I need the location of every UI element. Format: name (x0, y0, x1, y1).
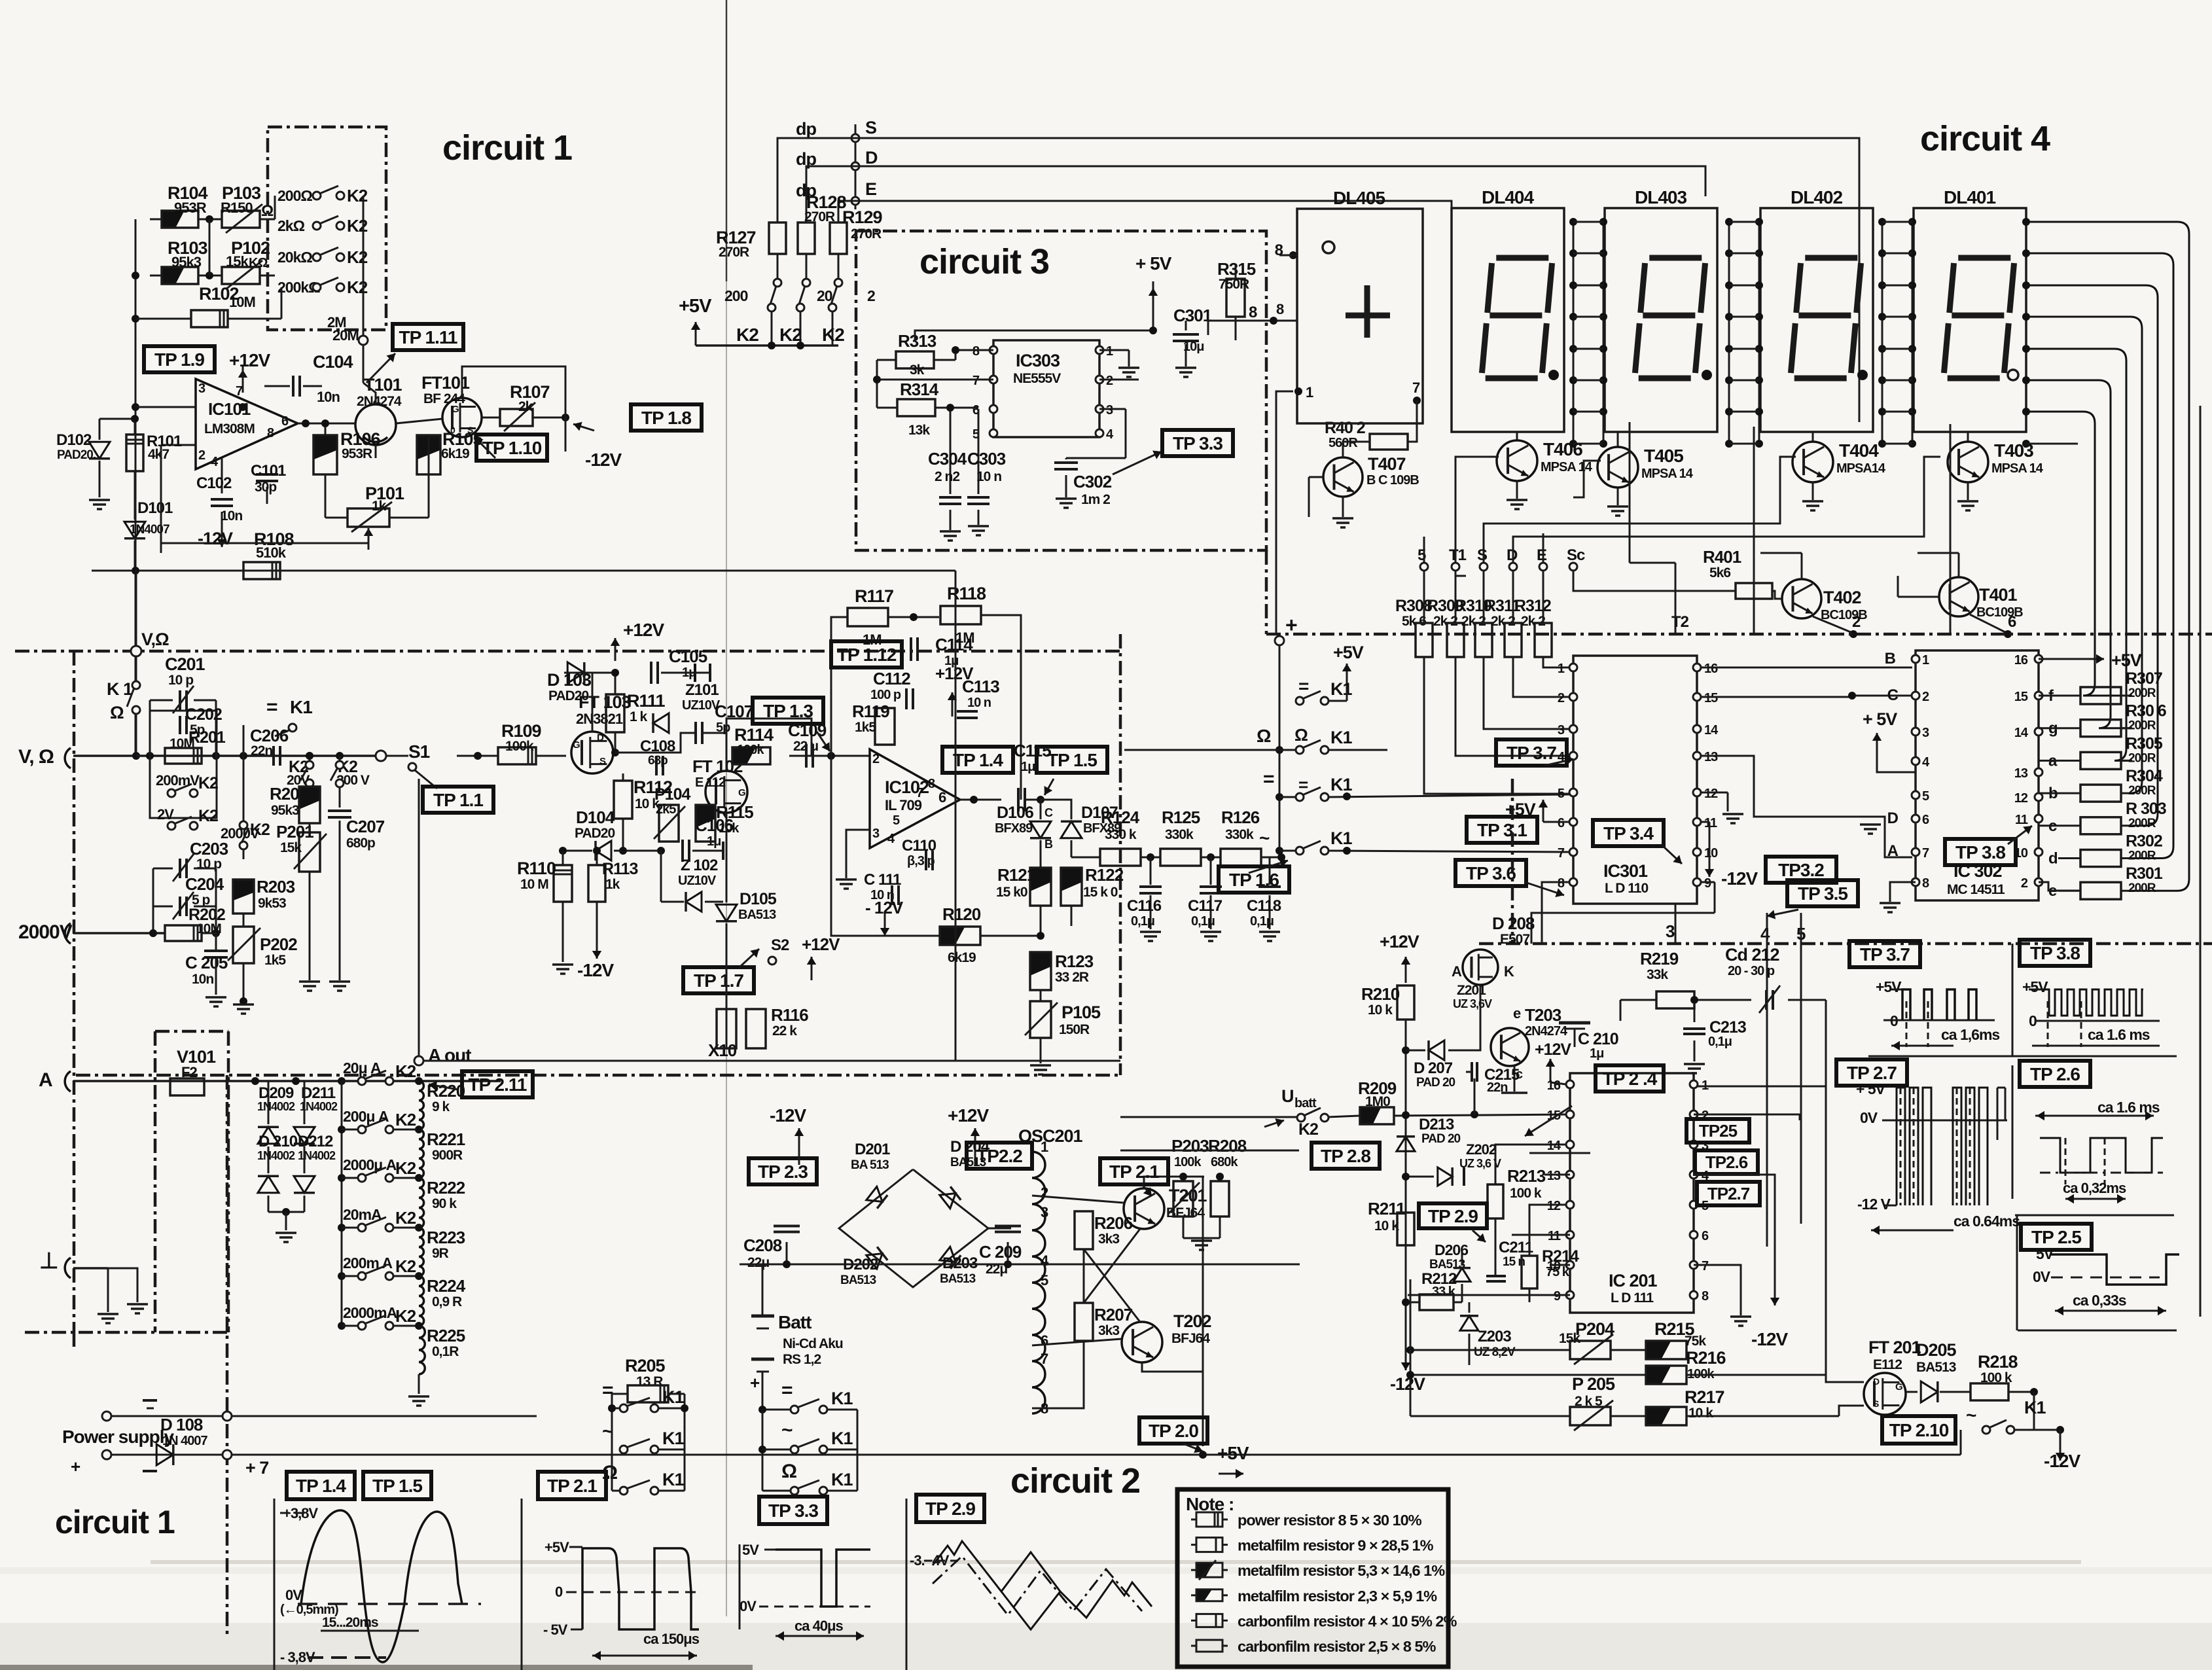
svg-text:7: 7 (916, 786, 923, 800)
svg-text:3k3: 3k3 (1098, 1232, 1119, 1247)
svg-text:TP 2.9: TP 2.9 (1428, 1206, 1478, 1226)
svg-text:1N4002: 1N4002 (257, 1100, 295, 1113)
svg-text:- 5V: - 5V (543, 1622, 568, 1638)
svg-text:D213: D213 (1419, 1116, 1454, 1133)
svg-text:FT 201: FT 201 (1868, 1338, 1921, 1357)
svg-text:circuit 3: circuit 3 (919, 242, 1049, 281)
svg-text:S: S (865, 118, 876, 137)
svg-text:c: c (1516, 1067, 1523, 1082)
svg-text:K: K (1504, 963, 1514, 980)
svg-text:K2: K2 (395, 1061, 416, 1081)
svg-text:R208: R208 (1208, 1136, 1247, 1156)
svg-text:13: 13 (1704, 750, 1718, 764)
svg-text:T403: T403 (1994, 440, 2033, 461)
svg-text:1k: 1k (372, 499, 387, 514)
svg-text:+5V: +5V (1876, 978, 1902, 995)
svg-text:14: 14 (2014, 726, 2029, 740)
svg-text:C: C (1887, 686, 1899, 704)
svg-text:8: 8 (928, 777, 935, 791)
svg-text:+ 7: + 7 (245, 1458, 268, 1478)
svg-text:D: D (1887, 809, 1899, 827)
svg-text:IC 201: IC 201 (1609, 1271, 1658, 1290)
svg-text:200m A: 200m A (343, 1254, 392, 1271)
svg-text:C112: C112 (873, 669, 910, 688)
svg-text:3k3: 3k3 (1098, 1323, 1119, 1338)
svg-text:1N4002: 1N4002 (300, 1100, 338, 1113)
svg-text:9: 9 (1704, 876, 1711, 891)
svg-text:~: ~ (781, 1419, 793, 1441)
svg-text:0: 0 (555, 1584, 563, 1600)
svg-text:metalfilm resistor 2,3 × 5,9: metalfilm resistor 2,3 × 5,9 1% (1238, 1588, 1437, 1605)
svg-text:circuit 2: circuit 2 (1010, 1461, 1140, 1501)
svg-text:IC301: IC301 (1603, 861, 1648, 881)
svg-text:TP 1.4: TP 1.4 (296, 1476, 346, 1496)
svg-text:power resistor 8 5 × 30 10%: power resistor 8 5 × 30 10% (1238, 1512, 1422, 1529)
svg-text:100k: 100k (737, 743, 764, 757)
svg-text:ca 1,6ms: ca 1,6ms (1941, 1026, 1999, 1043)
svg-text:T407: T407 (1368, 454, 1406, 474)
svg-text:A: A (1452, 963, 1462, 980)
svg-text:10n: 10n (221, 508, 242, 524)
svg-text:+ 5V: + 5V (1856, 1080, 1886, 1097)
svg-text:K1: K1 (662, 1429, 684, 1448)
svg-text:2: 2 (1852, 613, 1861, 631)
svg-text:9R: 9R (432, 1246, 449, 1261)
svg-text:carbonfilm resistor 2,5 × 8: carbonfilm resistor 2,5 × 8 5% (1238, 1638, 1436, 1655)
svg-text:C113: C113 (962, 677, 999, 696)
svg-text:K2: K2 (1298, 1120, 1318, 1139)
svg-text:6: 6 (1558, 816, 1565, 830)
svg-text:BC109B: BC109B (1976, 605, 2023, 620)
svg-text:13k: 13k (908, 423, 930, 438)
svg-text:953R: 953R (342, 446, 372, 461)
svg-text:15 k0: 15 k0 (996, 885, 1027, 900)
svg-text:R126: R126 (1221, 808, 1260, 827)
svg-text:R313: R313 (898, 331, 937, 351)
svg-text:D 108: D 108 (160, 1415, 203, 1434)
svg-text:TP 1.8: TP 1.8 (641, 408, 691, 428)
svg-text:2 n2: 2 n2 (935, 469, 959, 484)
svg-text:33 2R: 33 2R (1055, 970, 1089, 985)
svg-text:2k 2: 2k 2 (1521, 614, 1545, 629)
svg-text:β,3 p: β,3 p (907, 854, 935, 868)
svg-text:R205: R205 (625, 1356, 666, 1376)
svg-text:7: 7 (972, 374, 980, 388)
svg-text:75k: 75k (1685, 1334, 1706, 1349)
svg-text:A out: A out (428, 1045, 471, 1065)
svg-text:6k19: 6k19 (441, 446, 469, 461)
svg-text:BA513: BA513 (840, 1273, 876, 1287)
svg-text:K 1: K 1 (107, 679, 133, 699)
svg-text:4: 4 (1041, 1252, 1049, 1269)
svg-text:2000μ A: 2000μ A (343, 1156, 397, 1173)
svg-text:13: 13 (1547, 1169, 1561, 1183)
svg-text:+12V: +12V (1380, 932, 1419, 951)
svg-text:R206: R206 (1094, 1213, 1133, 1233)
svg-text:R301: R301 (2126, 864, 2163, 883)
svg-text:TP 2.1: TP 2.1 (547, 1476, 597, 1496)
svg-text:D104: D104 (576, 808, 615, 827)
svg-text:3: 3 (198, 382, 205, 396)
svg-text:16: 16 (1547, 1078, 1561, 1093)
svg-text:Z202: Z202 (1466, 1141, 1497, 1158)
svg-text:2: 2 (872, 752, 880, 766)
svg-text:100k: 100k (1174, 1155, 1202, 1169)
svg-text:10: 10 (1547, 1259, 1561, 1273)
svg-text:TP 1.9: TP 1.9 (154, 349, 204, 370)
svg-text:6: 6 (1922, 813, 1929, 827)
svg-text:7: 7 (1702, 1259, 1709, 1273)
svg-text:1N4002: 1N4002 (257, 1149, 295, 1162)
svg-text:T404: T404 (1839, 440, 1879, 461)
svg-text:D: D (865, 148, 878, 168)
svg-text:TP 2 .4: TP 2 .4 (1603, 1069, 1658, 1089)
svg-text:=: = (1298, 676, 1309, 696)
svg-text:8: 8 (267, 426, 274, 440)
svg-text:D212: D212 (298, 1133, 333, 1150)
svg-text:T101: T101 (364, 375, 402, 395)
svg-text:IC303: IC303 (1016, 351, 1060, 370)
svg-text:TP 3.5: TP 3.5 (1798, 883, 1847, 904)
svg-text:TP 1.6: TP 1.6 (1229, 870, 1279, 890)
svg-text:K2: K2 (347, 277, 368, 297)
svg-text:TP 3.4: TP 3.4 (1603, 823, 1654, 844)
svg-text:TP 3.7: TP 3.7 (1860, 944, 1910, 965)
svg-text:R120: R120 (942, 904, 981, 924)
svg-text:MPSA 14: MPSA 14 (1641, 467, 1694, 481)
svg-text:6: 6 (1702, 1229, 1709, 1243)
svg-text:MPSA 14: MPSA 14 (1991, 461, 2044, 476)
svg-text:R312: R312 (1514, 597, 1551, 615)
svg-text:BA513: BA513 (1429, 1258, 1465, 1271)
svg-text:K1: K1 (662, 1387, 684, 1407)
svg-text:+12V: +12V (229, 350, 270, 370)
svg-text:+5V: +5V (2022, 978, 2048, 995)
svg-text:0,9 R: 0,9 R (432, 1294, 462, 1309)
svg-text:30p: 30p (255, 480, 276, 495)
svg-text:DL405: DL405 (1333, 188, 1385, 208)
svg-text:ca 1.6 ms: ca 1.6 ms (2088, 1026, 2150, 1043)
svg-text:+5V: +5V (2111, 650, 2142, 670)
svg-text:C 210: C 210 (1578, 1030, 1618, 1048)
svg-text:22μ: 22μ (747, 1255, 769, 1270)
svg-text:33k: 33k (1647, 967, 1668, 982)
svg-text:1k: 1k (605, 877, 620, 892)
svg-text:2k5: 2k5 (656, 802, 676, 817)
svg-text:12: 12 (1704, 787, 1718, 801)
svg-text:12: 12 (1547, 1199, 1561, 1213)
svg-text:4: 4 (1760, 924, 1770, 944)
svg-text:R109: R109 (501, 721, 542, 741)
svg-text:TP 2.9: TP 2.9 (925, 1499, 975, 1519)
svg-text:G: G (452, 404, 459, 415)
svg-text:150R: 150R (1059, 1022, 1090, 1037)
svg-text:TP 3.8: TP 3.8 (1955, 842, 2005, 862)
svg-text:2: 2 (1922, 690, 1929, 704)
svg-text:Batt: Batt (778, 1312, 812, 1332)
svg-text:R 303: R 303 (2126, 800, 2166, 818)
svg-text:3k: 3k (910, 363, 925, 378)
svg-text:R221: R221 (427, 1129, 465, 1149)
svg-text:1m 2: 1m 2 (1081, 492, 1110, 507)
svg-text:953R: 953R (174, 200, 207, 216)
svg-text:=: = (266, 696, 277, 718)
svg-text:6: 6 (938, 789, 946, 806)
svg-text:2000mA: 2000mA (343, 1304, 397, 1321)
svg-text:C116: C116 (1127, 897, 1162, 915)
svg-text:E: E (865, 179, 876, 199)
svg-text:V,Ω: V,Ω (141, 630, 169, 649)
svg-text:S: S (1477, 546, 1488, 564)
svg-text:K1: K1 (662, 1470, 684, 1489)
svg-text:S: S (1873, 1398, 1879, 1409)
svg-text:TP 1.5: TP 1.5 (1047, 750, 1097, 770)
svg-text:2V: 2V (157, 806, 174, 823)
svg-text:2: 2 (198, 448, 205, 463)
svg-text:1μ: 1μ (1590, 1046, 1603, 1061)
svg-text:0V: 0V (740, 1598, 757, 1614)
svg-text:MPSA14: MPSA14 (1836, 461, 1886, 476)
svg-text:K2: K2 (779, 325, 802, 345)
svg-text:G: G (738, 787, 745, 798)
svg-text:9: 9 (1554, 1289, 1561, 1304)
svg-text:DL403: DL403 (1635, 187, 1686, 207)
svg-text:=: = (781, 1379, 793, 1401)
svg-text:10 n: 10 n (976, 469, 1001, 484)
svg-text:6k19: 6k19 (948, 950, 976, 965)
svg-text:carbonfilm resistor 4 × 10 5: carbonfilm resistor 4 × 10 5% 2% (1238, 1612, 1457, 1629)
svg-text:1: 1 (1106, 344, 1113, 359)
svg-text:V, Ω: V, Ω (18, 746, 54, 768)
svg-text:U: U (1281, 1086, 1294, 1106)
svg-text:10 p: 10 p (168, 673, 193, 688)
svg-text:P202: P202 (260, 934, 297, 954)
svg-text:2k 2: 2k 2 (1491, 614, 1515, 629)
svg-text:C211: C211 (1499, 1239, 1533, 1256)
svg-text:R217: R217 (1685, 1387, 1724, 1407)
svg-text:200R: 200R (2128, 784, 2156, 798)
svg-text:3: 3 (1666, 921, 1675, 941)
svg-text:10 p: 10 p (196, 857, 221, 872)
svg-text:8: 8 (1276, 301, 1284, 317)
svg-text:R213: R213 (1507, 1166, 1546, 1186)
svg-text:10n: 10n (192, 972, 213, 987)
svg-text:6: 6 (2008, 613, 2016, 631)
svg-text:circuit 4: circuit 4 (1920, 119, 2050, 158)
svg-text:330 k: 330 k (1105, 827, 1137, 842)
svg-text:T406: T406 (1543, 439, 1582, 459)
svg-text:T203: T203 (1525, 1005, 1561, 1025)
svg-text:3: 3 (1558, 723, 1565, 737)
svg-text:Z201: Z201 (1457, 983, 1486, 998)
svg-text:TP 3.3: TP 3.3 (768, 1501, 818, 1521)
svg-text:D102: D102 (56, 431, 92, 449)
svg-text:R30 6: R30 6 (2126, 702, 2166, 720)
svg-text:~: ~ (1259, 828, 1270, 848)
svg-text:2kΩ: 2kΩ (277, 217, 305, 234)
svg-text:TP 1.7: TP 1.7 (694, 970, 743, 991)
svg-text:R116: R116 (771, 1005, 808, 1025)
svg-text:200: 200 (724, 287, 748, 304)
svg-text:K2: K2 (822, 325, 844, 345)
svg-text:10k: 10k (719, 821, 740, 836)
svg-text:RS 1,2: RS 1,2 (783, 1352, 821, 1367)
svg-text:8: 8 (1702, 1289, 1709, 1304)
svg-text:10 M: 10 M (520, 877, 548, 892)
svg-text:C104: C104 (313, 352, 353, 372)
svg-text:10: 10 (1704, 846, 1718, 861)
svg-text:ca 40μs: ca 40μs (794, 1618, 844, 1634)
svg-text:C206: C206 (250, 726, 289, 745)
svg-text:C213: C213 (1709, 1018, 1746, 1037)
svg-text:22 k: 22 k (772, 1023, 797, 1039)
svg-text:1: 1 (1041, 1139, 1048, 1155)
svg-text:metalfilm resistor 9 × 28,5: metalfilm resistor 9 × 28,5 1% (1238, 1537, 1434, 1554)
svg-text:R224: R224 (427, 1276, 466, 1296)
svg-text:C302: C302 (1073, 472, 1112, 491)
svg-text:15k: 15k (280, 840, 302, 855)
svg-text:G: G (1895, 1381, 1902, 1393)
svg-text:22n: 22n (1487, 1080, 1507, 1095)
svg-text:LM308M: LM308M (204, 421, 255, 436)
svg-text:S: S (599, 756, 606, 767)
svg-text:1μ: 1μ (1021, 760, 1035, 774)
svg-text:K2: K2 (395, 1110, 416, 1129)
svg-text:BFX89: BFX89 (995, 821, 1033, 836)
svg-text:S1: S1 (408, 741, 430, 762)
svg-text:ca 150μs: ca 150μs (643, 1631, 700, 1647)
svg-text:+5V: +5V (544, 1539, 569, 1555)
svg-text:C 111: C 111 (864, 871, 901, 889)
svg-text:A: A (39, 1069, 52, 1091)
svg-text:E507: E507 (1500, 932, 1529, 947)
svg-text:330k: 330k (1225, 827, 1254, 842)
svg-text:2k: 2k (518, 399, 533, 414)
svg-text:3: 3 (1106, 403, 1113, 417)
svg-text:200mV: 200mV (156, 772, 200, 789)
svg-text:C108: C108 (640, 737, 675, 755)
svg-text:K1: K1 (1330, 679, 1352, 699)
svg-text:R150: R150 (221, 200, 253, 216)
svg-text:OSC201: OSC201 (1018, 1126, 1083, 1146)
svg-text:Z101: Z101 (685, 681, 719, 699)
svg-text:750R: 750R (1219, 277, 1249, 292)
svg-text:+: + (750, 1373, 760, 1393)
svg-text:K2: K2 (395, 1208, 416, 1228)
svg-text:D211: D211 (301, 1084, 336, 1102)
svg-text:TP 3.1: TP 3.1 (1477, 820, 1527, 840)
svg-text:C101: C101 (251, 462, 286, 480)
svg-text:R222: R222 (427, 1178, 465, 1198)
svg-text:5: 5 (1041, 1272, 1048, 1288)
svg-text:C102: C102 (196, 474, 232, 492)
svg-text:R114: R114 (734, 725, 774, 745)
svg-text:R203: R203 (257, 877, 295, 897)
svg-text:TP 2.6: TP 2.6 (2030, 1064, 2080, 1084)
svg-text:C117: C117 (1188, 897, 1222, 915)
svg-text:P 205: P 205 (1572, 1374, 1615, 1394)
svg-text:D201: D201 (855, 1141, 890, 1158)
svg-text:9k53: 9k53 (258, 896, 286, 911)
svg-text:100 k: 100 k (1510, 1186, 1542, 1201)
svg-text:7: 7 (1922, 846, 1929, 861)
svg-text:BA513: BA513 (940, 1272, 976, 1286)
svg-text:0,1μ: 0,1μ (1191, 914, 1215, 929)
svg-text:680k: 680k (1211, 1155, 1238, 1169)
svg-text:+: + (1285, 613, 1297, 637)
svg-text:+12V: +12V (802, 934, 840, 954)
svg-text:11: 11 (2015, 813, 2028, 827)
svg-text:DL404: DL404 (1482, 187, 1534, 207)
svg-text:E112: E112 (1873, 1357, 1902, 1372)
svg-text:C208: C208 (743, 1235, 782, 1255)
svg-text:UZ 3,6V: UZ 3,6V (1453, 997, 1492, 1010)
svg-text:0V: 0V (1860, 1109, 1878, 1126)
svg-text:Cd 212: Cd 212 (1725, 945, 1779, 965)
svg-text:R219: R219 (1640, 949, 1679, 968)
svg-text:IC101: IC101 (208, 399, 251, 419)
svg-text:+5V: +5V (1217, 1443, 1249, 1463)
svg-text:PAD20.: PAD20. (57, 448, 96, 462)
svg-text:1 k: 1 k (630, 709, 648, 724)
svg-text:20 - 30 p: 20 - 30 p (1728, 964, 1775, 978)
svg-text:20M: 20M (332, 327, 359, 344)
svg-text:R121: R121 (997, 865, 1036, 885)
svg-text:K2: K2 (347, 186, 368, 205)
svg-text:0,1μ: 0,1μ (1131, 914, 1154, 929)
svg-text:0V: 0V (285, 1587, 302, 1603)
svg-text:10M: 10M (229, 294, 255, 310)
svg-text:K2: K2 (736, 325, 758, 345)
svg-text:8: 8 (1275, 241, 1283, 259)
svg-text:15 k 0: 15 k 0 (1083, 885, 1118, 900)
svg-text:R223: R223 (427, 1228, 465, 1247)
svg-text:circuit 1: circuit 1 (55, 1504, 175, 1540)
svg-text:metalfilm resistor 5,3 × 14,: metalfilm resistor 5,3 × 14,6 1% (1238, 1562, 1445, 1579)
svg-text:5k 6: 5k 6 (1402, 614, 1426, 629)
svg-text:14: 14 (1704, 723, 1719, 737)
svg-text:BF 244: BF 244 (423, 391, 465, 406)
svg-text:BFJ64: BFJ64 (1171, 1331, 1210, 1346)
svg-text:R123: R123 (1055, 951, 1094, 971)
svg-text:-12 V: -12 V (1857, 1196, 1891, 1213)
svg-text:+12V: +12V (623, 620, 664, 640)
svg-text:15: 15 (1704, 691, 1718, 705)
svg-text:BA513: BA513 (738, 908, 776, 922)
svg-text:circuit 1: circuit 1 (442, 128, 572, 168)
svg-text:C207: C207 (346, 817, 385, 836)
svg-text:D 210: D 210 (259, 1133, 298, 1150)
svg-text:-12V: -12V (585, 450, 622, 470)
svg-text:T401: T401 (1979, 585, 2018, 605)
svg-text:P105: P105 (1061, 1003, 1101, 1022)
svg-text:16: 16 (2014, 653, 2028, 667)
svg-text:D205: D205 (1916, 1340, 1957, 1360)
svg-text:R115: R115 (716, 802, 753, 822)
svg-text:PAD 20: PAD 20 (1416, 1076, 1455, 1090)
svg-text:TP 1.3: TP 1.3 (763, 701, 813, 721)
svg-text:UZ10V: UZ10V (678, 874, 717, 888)
svg-text:15...20ms: 15...20ms (322, 1615, 378, 1630)
svg-text:- 12V: - 12V (865, 898, 904, 917)
svg-text:2: 2 (1558, 691, 1565, 705)
svg-text:200R: 200R (2128, 849, 2156, 863)
svg-text:K2: K2 (395, 1158, 416, 1178)
svg-text:TP2.6: TP2.6 (1705, 1152, 1748, 1172)
svg-text:TP 2.11: TP 2.11 (468, 1075, 526, 1095)
svg-text:PAD20: PAD20 (575, 826, 615, 841)
svg-text:7: 7 (236, 384, 243, 399)
